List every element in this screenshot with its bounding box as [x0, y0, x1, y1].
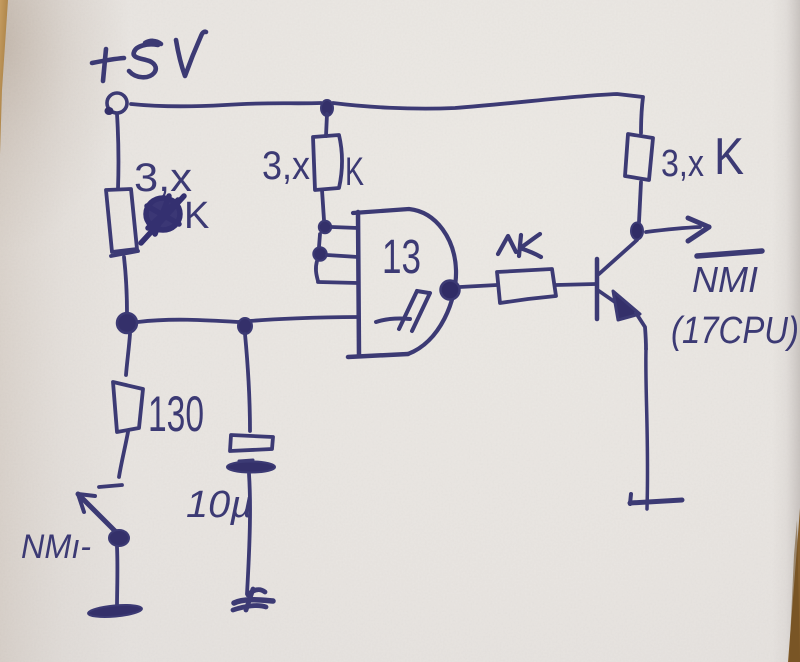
junction gate input 1 — [319, 221, 331, 233]
svg-text:K: K — [184, 195, 209, 237]
resistor R5 1K — [497, 269, 556, 303]
wire tie input 1-2 — [319, 234, 320, 247]
label (17 CPU) — [671, 310, 799, 352]
wire node B to C1 — [245, 334, 250, 431]
NAND gate U1 body — [358, 212, 359, 356]
resistor R3 — [625, 134, 653, 180]
label R1 3,x — [134, 156, 192, 200]
resistor R1 — [106, 189, 137, 252]
wire C1 to ground — [247, 474, 250, 594]
open-collector slash symbol — [376, 291, 430, 331]
wire R4 to switch — [119, 432, 128, 477]
scribble crossed-out value — [141, 196, 184, 243]
junction top rail — [321, 100, 333, 116]
wire input 3 — [318, 282, 358, 283]
wire R2 to gate inputs — [322, 190, 324, 220]
label R2 3,x — [262, 144, 310, 188]
svg-text:3,x: 3,x — [262, 144, 310, 188]
wood table bottom-right edge — [788, 508, 800, 662]
wire R5 to Q1 base — [556, 284, 596, 285]
resistor R2 — [313, 135, 342, 190]
svg-text:130: 130 — [148, 386, 204, 442]
ground left — [88, 603, 143, 619]
wire switch to ground — [115, 547, 119, 607]
power label +5V — [92, 32, 206, 81]
wire input 1 — [332, 227, 358, 228]
svg-text:13: 13 — [382, 231, 421, 284]
wire input 2 — [327, 255, 358, 257]
wire tie input 2-3 — [316, 261, 318, 281]
label NMI- — [21, 528, 91, 566]
ground middle — [233, 589, 273, 610]
node A junction — [117, 313, 137, 333]
svg-text:K: K — [345, 150, 364, 194]
transistor Q1 emitter — [599, 291, 625, 309]
junction gate input 2 — [313, 247, 326, 260]
overline NMI — [697, 251, 762, 256]
transistor Q1 base bar — [595, 259, 600, 319]
wire node A to R4 — [126, 334, 130, 375]
label R1 K — [184, 195, 209, 237]
wood table top-left edge — [0, 0, 8, 155]
ground right — [630, 494, 631, 504]
arrow NMI output — [646, 227, 700, 232]
terminal +5V — [107, 93, 127, 113]
wire R1 to node A — [124, 257, 127, 313]
label R2 K — [345, 150, 364, 194]
label 10u — [186, 484, 253, 526]
wire +5V to R1 — [117, 114, 118, 189]
capacitor C1 bottom plate — [239, 460, 253, 461]
switch S1 contact — [99, 485, 122, 487]
node B junction — [238, 318, 252, 334]
svg-text:10µ: 10µ — [186, 484, 253, 526]
svg-text:(17CPU): (17CPU) — [671, 310, 799, 352]
label 1K — [498, 234, 541, 257]
wire emitter to ground right — [646, 349, 648, 509]
wire gate to R5 — [460, 285, 497, 287]
gate output junction — [441, 281, 460, 300]
wire rail to R2 — [326, 114, 327, 136]
wire R3 to collector node — [639, 182, 641, 222]
resistor R4 130 — [113, 382, 143, 432]
svg-text:NMı-: NMı- — [21, 528, 91, 566]
wire emitter down — [636, 313, 646, 349]
switch S1 pole blob — [109, 530, 129, 546]
wire +5V rail — [131, 103, 321, 106]
collector node junction — [631, 223, 643, 240]
label 130 — [148, 386, 204, 442]
svg-text:NMI: NMI — [692, 259, 758, 300]
switch S1 lever — [78, 494, 120, 536]
label U1 pin 13 — [382, 231, 421, 284]
capacitor C1 top plate — [230, 435, 273, 451]
label R3 3,x K — [661, 128, 744, 186]
wire node A to gate — [138, 317, 358, 322]
transistor Q1 collector — [599, 240, 637, 274]
svg-text:3,x: 3,x — [661, 143, 704, 185]
label NMI — [692, 259, 758, 300]
svg-text:K: K — [714, 128, 744, 186]
